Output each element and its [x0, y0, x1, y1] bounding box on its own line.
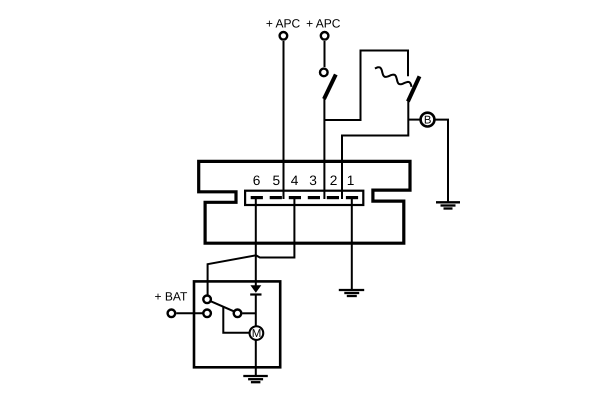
svg-text:1: 1	[347, 173, 355, 188]
terminal circle +APC right	[321, 32, 329, 40]
switch S1 fixed contact circle	[320, 69, 328, 77]
relay switch arm	[211, 301, 234, 311]
pin 5 contact	[270, 196, 282, 199]
svg-text:B: B	[424, 115, 432, 127]
wire pin 1 to ground	[351, 198, 353, 290]
wire from S1 down to connector pins 3/2	[323, 98, 325, 199]
pin 6 contact	[251, 196, 263, 199]
wire +APC right to switch S1	[324, 41, 326, 67]
wire to bulb B	[408, 119, 421, 121]
wire junction to relay contact A	[208, 255, 256, 296]
pin 4 contact	[289, 196, 301, 199]
switch S1 blade	[324, 75, 336, 100]
pin 1 contact	[346, 196, 358, 199]
relay contact D (motor side)	[234, 310, 242, 318]
pin 2 contact	[327, 196, 339, 199]
switch S2 blade (thermal breaker)	[408, 76, 420, 101]
wire diode to motor	[255, 295, 257, 327]
svg-text:3: 3	[309, 173, 317, 188]
svg-text:+ BAT: + BAT	[155, 290, 188, 304]
wire contact D to motor line	[242, 312, 256, 314]
ground (right of B)	[436, 202, 460, 208]
wire +BAT into relay	[176, 312, 202, 314]
svg-text:+ APC: + APC	[306, 16, 341, 30]
wire +APC left down to connector pins 5/4	[283, 41, 285, 199]
wire pin 6 down to diode	[255, 198, 257, 286]
wire pin 4 down and left to junction	[256, 198, 295, 258]
svg-text:6: 6	[253, 173, 261, 188]
motor M	[250, 326, 264, 340]
wire from S2 down and left to connector pin 2/1	[342, 101, 408, 200]
wire branch to thermal breaker loop	[324, 51, 408, 121]
bulb B	[421, 113, 435, 127]
svg-text:4: 4	[291, 173, 299, 188]
ground (below pin 1)	[339, 290, 364, 296]
pin 3 contact	[308, 196, 320, 199]
svg-text:+ APC: + APC	[266, 16, 301, 30]
svg-text:2: 2	[330, 173, 338, 188]
terminal circle +APC left	[280, 32, 288, 40]
pin strip	[245, 191, 363, 205]
relay contact A (from connector)	[203, 296, 211, 304]
wire arm tap down to motor	[223, 307, 249, 333]
diode D1 triangle	[250, 285, 261, 293]
thermal element squiggle	[375, 67, 412, 87]
connector housing outline	[199, 161, 410, 243]
svg-text:5: 5	[272, 173, 280, 188]
relay contact C (BAT side)	[203, 310, 211, 318]
wire from B to ground	[434, 120, 448, 203]
svg-text:M: M	[252, 328, 262, 340]
diode D1 cathode bar	[250, 293, 261, 295]
ground (below motor)	[243, 376, 267, 382]
terminal circle +BAT	[168, 310, 176, 318]
wire motor to ground	[255, 340, 257, 376]
relay box	[194, 281, 280, 367]
